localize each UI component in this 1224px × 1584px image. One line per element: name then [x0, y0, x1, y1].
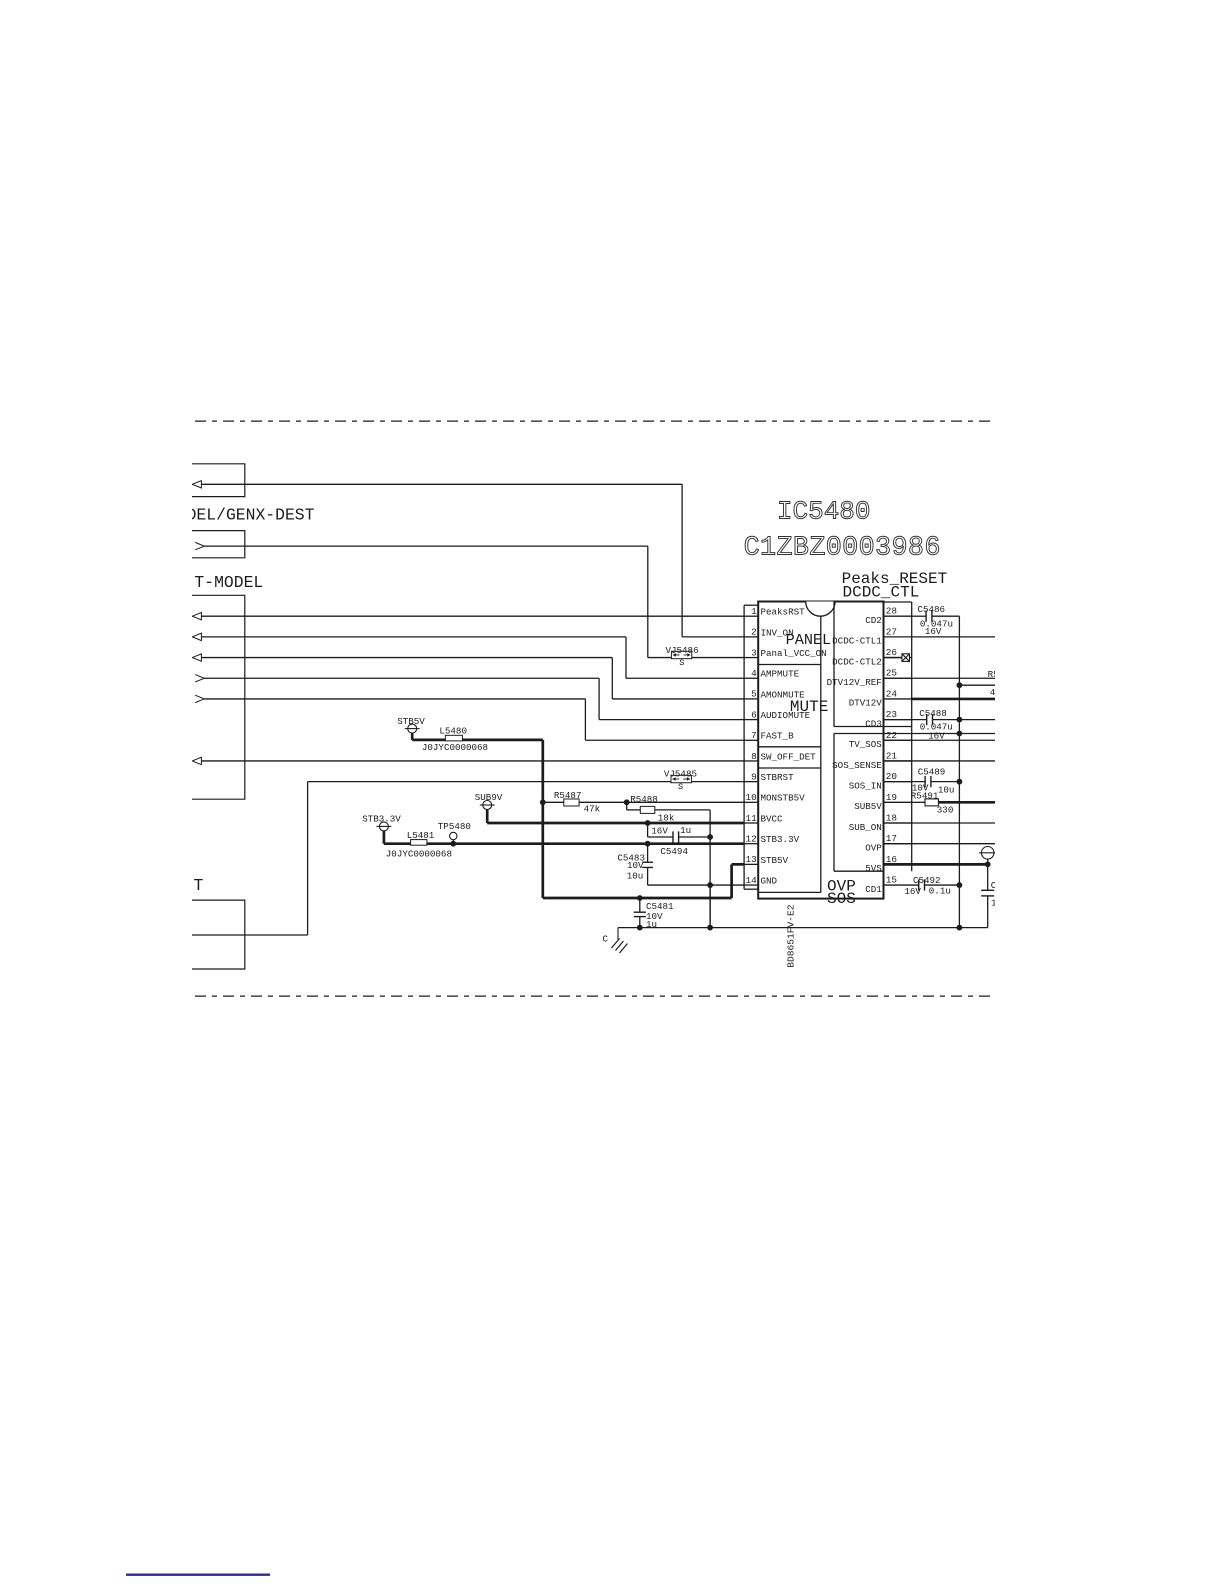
svg-text:SUB5V: SUB5V — [854, 801, 882, 812]
STB5V wire to L5480 — [412, 739, 445, 742]
svg-text:BD8651FV-E2: BD8651FV-E2 — [785, 904, 796, 968]
svg-text:18: 18 — [886, 813, 898, 824]
svg-text:1: 1 — [991, 898, 997, 909]
junction C5481 top — [637, 895, 643, 901]
pin 4 divider — [744, 677, 758, 679]
svg-text:15: 15 — [886, 875, 898, 886]
svg-text:DTV12V_REF: DTV12V_REF — [827, 677, 882, 688]
svg-text:SUB_ON: SUB_ON — [849, 822, 882, 833]
wire to pin 2 INV_ON — [682, 636, 744, 638]
svg-text:OVP: OVP — [865, 842, 882, 853]
wire R5488 east — [655, 809, 710, 811]
svg-text:0.1u: 0.1u — [929, 885, 951, 896]
wire to pin 7 FAST_B — [585, 739, 744, 741]
svg-text:SW_OFF_DET: SW_OFF_DET — [761, 751, 817, 762]
junction rail/riser — [707, 925, 713, 931]
pin 13 divider — [744, 863, 758, 865]
junction GND riser — [707, 882, 713, 888]
capacitor C5492 — [918, 879, 920, 890]
svg-text:1: 1 — [751, 606, 757, 617]
jumper VJ5485 — [671, 775, 691, 782]
svg-text:CD2: CD2 — [865, 615, 882, 626]
wire cap to rail — [987, 896, 989, 928]
wire pin 16 5VS (thick) — [884, 863, 988, 866]
label column — [820, 616, 822, 892]
right pin box column — [911, 602, 913, 871]
svg-text:2: 2 — [751, 627, 757, 638]
svg-text:T-MODEL: T-MODEL — [194, 573, 263, 592]
junction bus/C5489 — [957, 779, 963, 785]
arrow AMONMUTE net — [192, 654, 201, 661]
wire node down to rail — [709, 837, 711, 928]
svg-text:13: 13 — [746, 854, 758, 865]
svg-text:T: T — [194, 876, 204, 895]
SUB9V drop — [486, 810, 489, 824]
junction rail/bus — [957, 925, 963, 931]
block SOS bottom — [834, 870, 884, 872]
wire to pin 1 PeaksRST — [201, 615, 744, 617]
pin 7 divider — [744, 739, 758, 741]
wire C5483 to GND line — [647, 868, 649, 886]
svg-text:19: 19 — [886, 792, 897, 803]
svg-text:J0JYC0000068: J0JYC0000068 — [386, 848, 452, 859]
STB5V riser down — [541, 740, 544, 898]
svg-text:47k: 47k — [584, 804, 601, 815]
svg-text:CD3: CD3 — [865, 718, 882, 729]
wire pin 22 TV_SOS — [884, 739, 996, 741]
capacitor C5494 — [672, 831, 674, 842]
bottom dashed border — [195, 995, 994, 997]
capacitor at cut edge — [981, 889, 994, 891]
svg-text:8: 8 — [751, 751, 757, 762]
svg-text:S: S — [679, 658, 684, 668]
svg-text:DCDC-CTL2: DCDC-CTL2 — [832, 656, 882, 667]
wire to pin 5 AMONMUTE — [612, 698, 744, 700]
power flag STB3.3V — [379, 822, 388, 831]
arrow AMPMUTE net — [192, 633, 201, 640]
svg-text:DCDC_CTL: DCDC_CTL — [843, 584, 920, 602]
svg-text:R5: R5 — [988, 669, 999, 680]
wire pin 17 OVP — [884, 843, 996, 845]
wire P1 to INV_ON (v) — [681, 484, 683, 637]
pin 27 divider — [884, 636, 912, 638]
ground rail — [618, 927, 988, 929]
arrow out P1 — [192, 481, 201, 488]
wire BVCC down to C5494 — [647, 823, 649, 837]
svg-text:SOS_IN: SOS_IN — [849, 780, 882, 791]
svg-text:C: C — [603, 934, 609, 945]
capacitor C5489 — [924, 776, 926, 787]
wire P1 to INV_ON (h) — [201, 483, 682, 485]
block SOS top edge wire — [834, 733, 995, 735]
connector box P3 (tall) — [185, 595, 245, 799]
pin 19 net with R5491 — [912, 801, 925, 803]
svg-text:22: 22 — [886, 730, 897, 741]
test point TP5480 — [450, 832, 457, 839]
pin 19 divider — [884, 801, 912, 803]
wire pin 21 SOS_SENSE — [884, 760, 996, 762]
wire GND pin 14 — [648, 884, 745, 886]
pin 15 net with C5492 — [884, 884, 919, 886]
connector box P2 — [185, 531, 245, 558]
BVCC wire to pin 11 — [487, 822, 744, 825]
svg-text:AMPMUTE: AMPMUTE — [761, 669, 800, 680]
wire to pin 6 AUDIOMUTE — [599, 719, 744, 721]
wire to pin 4 AMPMUTE — [626, 677, 744, 679]
jumper VJ5486 — [671, 651, 691, 658]
wire P2 to Panel_VCC_ON (h) — [204, 545, 648, 547]
arrow in P2 — [195, 542, 204, 549]
wire to AUDIOMUTE (v) — [598, 678, 600, 719]
junction bus tap — [957, 682, 963, 688]
svg-text:C: C — [991, 880, 997, 891]
capacitor C5483 — [642, 861, 653, 863]
pin 12 divider — [744, 843, 758, 845]
pin 23 net with C5488 — [884, 719, 927, 721]
pin 18 divider — [884, 822, 912, 824]
junction BVCC/C5494 — [645, 820, 651, 826]
wire pin 25 DTV12V_REF — [884, 677, 996, 679]
wire C5481 to rail — [639, 917, 641, 928]
wire to FAST_B (v) — [584, 699, 586, 740]
junction bus/SOS top — [957, 731, 963, 737]
svg-text:STB5V: STB5V — [397, 716, 425, 727]
svg-text:16V: 16V — [651, 826, 668, 837]
inductor L5480 — [445, 735, 462, 741]
svg-text:TP5480: TP5480 — [438, 821, 471, 832]
wire pin 18 SUB_ON — [884, 822, 996, 824]
inner block DCDC — [833, 602, 835, 727]
pin 28 net with C5486 — [912, 615, 927, 617]
pin 20 net with C5489 — [884, 781, 926, 783]
TP5480 stub — [452, 840, 454, 844]
svg-text:16V: 16V — [925, 626, 942, 637]
arrow PeaksRST — [192, 613, 201, 620]
wire to jumper VJ5486 — [648, 657, 671, 659]
junction STB5V/R5487 — [540, 799, 546, 805]
svg-text:C5489: C5489 — [918, 767, 946, 778]
svg-text:S: S — [678, 782, 683, 792]
pin 26 no-connect — [884, 657, 902, 659]
pin 20 divider — [884, 781, 912, 783]
pin 14 divider — [744, 884, 758, 886]
wire jumper to pin 3 — [692, 657, 744, 659]
junction C5494/R5488 — [707, 834, 713, 840]
svg-text:16V: 16V — [904, 886, 921, 897]
svg-text:R5491: R5491 — [911, 790, 939, 801]
svg-text:L5481: L5481 — [407, 830, 435, 841]
svg-text:9: 9 — [751, 771, 757, 782]
pin 28 divider — [884, 615, 912, 617]
svg-text:VJ5485: VJ5485 — [664, 769, 697, 780]
wire to AMPMUTE (v) — [625, 637, 627, 678]
5VS flag stub — [987, 859, 989, 864]
svg-text:C5494: C5494 — [660, 846, 688, 857]
svg-text:STBRST: STBRST — [761, 772, 795, 783]
svg-text:4: 4 — [751, 668, 757, 679]
svg-text:14: 14 — [746, 875, 758, 886]
right edge capacitor (cut) — [987, 864, 989, 890]
connector box P1 (top) — [185, 464, 245, 497]
block DCDC bottom — [834, 726, 912, 728]
wire to pin 8 SW_OFF_DET — [201, 760, 744, 762]
svg-text:STB5V: STB5V — [761, 855, 789, 866]
svg-text:5VS: 5VS — [865, 863, 882, 874]
wire to pin 13 STB5V — [732, 863, 745, 866]
svg-text:1u: 1u — [646, 919, 657, 930]
pin 8 divider — [744, 760, 758, 762]
STB5V riser to pin 13 — [730, 864, 733, 898]
STB5V drop — [411, 733, 414, 740]
svg-text:23: 23 — [886, 709, 898, 720]
svg-text:1u: 1u — [680, 825, 691, 836]
svg-text:24: 24 — [886, 688, 898, 699]
wire GND down to rail — [709, 885, 711, 928]
svg-text:SOS: SOS — [827, 890, 856, 908]
resistor R5491 — [925, 799, 938, 806]
svg-text:CD1: CD1 — [865, 884, 882, 895]
capacitor C5486 — [925, 611, 927, 622]
wire jumper to pin 9 STBRST — [692, 781, 745, 783]
wire P4 riser (v) — [307, 782, 309, 935]
power flag 5VS — [981, 847, 994, 860]
wire to FAST_B (h) — [204, 698, 585, 700]
inner block SOS — [833, 734, 835, 872]
top dashed border — [195, 420, 994, 422]
svg-text:GND: GND — [761, 875, 778, 886]
pin 16 divider — [884, 863, 912, 865]
pin 6 divider — [744, 719, 758, 721]
svg-text:BVCC: BVCC — [761, 813, 784, 824]
chassis ground symbol — [617, 928, 619, 940]
capacitor C5481 — [634, 911, 646, 913]
wire P2 to Panel_VCC_ON (v) — [647, 546, 649, 657]
svg-text:7: 7 — [751, 730, 757, 741]
wire to AMONMUTE (v) — [611, 658, 613, 699]
pin 1 divider — [744, 615, 758, 617]
svg-text:PeaksRST: PeaksRST — [761, 607, 806, 618]
svg-text:12: 12 — [746, 833, 757, 844]
STB3.3V drop — [383, 831, 386, 844]
pin 17 divider — [884, 843, 912, 845]
STB3.3V wire to pin 12 — [427, 842, 744, 845]
pin 10 divider — [744, 801, 758, 803]
svg-text:DTV12V: DTV12V — [849, 698, 883, 709]
wire R5491 east (thick) — [938, 801, 995, 804]
wire to AUDIOMUTE (h) — [204, 677, 599, 679]
svg-text:STB3.3V: STB3.3V — [761, 834, 800, 845]
arrow AUDIOMUTE net — [195, 675, 204, 682]
wire to C5494 — [648, 836, 673, 838]
pin 3 divider — [744, 657, 758, 659]
svg-text:26: 26 — [886, 647, 898, 658]
pin 9 divider — [744, 781, 758, 783]
junction bus/C5492 — [957, 882, 963, 888]
svg-text:MONSTB5V: MONSTB5V — [761, 793, 806, 804]
wire P4 out (h) — [192, 934, 308, 936]
left pin box column — [743, 605, 745, 889]
svg-text:10u: 10u — [627, 870, 644, 881]
svg-text:25: 25 — [886, 668, 898, 679]
svg-text:21: 21 — [886, 750, 898, 761]
inductor L5481 — [411, 840, 427, 846]
svg-text:L5480: L5480 — [439, 726, 467, 737]
pin 23 divider — [884, 719, 912, 721]
wire to AMONMUTE (h) — [201, 657, 612, 659]
svg-text:27: 27 — [886, 626, 897, 637]
svg-text:10: 10 — [746, 792, 758, 803]
svg-text:47: 47 — [990, 687, 1001, 698]
svg-text:MUTE: MUTE — [790, 698, 828, 716]
junction 5VS — [985, 861, 991, 867]
svg-text:STB3.3V: STB3.3V — [362, 813, 401, 824]
IC notch — [806, 602, 835, 617]
svg-text:C5488: C5488 — [919, 708, 947, 719]
capacitor C5488 — [926, 714, 928, 725]
svg-text:C5486: C5486 — [918, 604, 946, 615]
svg-text:R5488: R5488 — [630, 794, 658, 805]
STB5V wire east — [462, 739, 542, 742]
pin 2 divider — [744, 636, 758, 638]
svg-text:TV_SOS: TV_SOS — [849, 739, 883, 750]
svg-text:330: 330 — [937, 805, 954, 816]
wire down to C5483 — [647, 844, 649, 863]
no-connect symbol — [902, 654, 910, 662]
svg-text:Panal_VCC_ON: Panal_VCC_ON — [761, 648, 827, 659]
wire to jumper VJ5485 — [308, 781, 671, 783]
pin 5 divider — [744, 698, 758, 700]
STB5V bottom run — [543, 897, 732, 900]
svg-text:PANEL: PANEL — [786, 631, 832, 649]
pin 25 divider — [884, 677, 912, 679]
resistor R5487 — [564, 799, 579, 806]
power flag SUB9V — [483, 801, 492, 810]
STB3.3V wire to L5481 — [384, 842, 411, 845]
junction STB3.3V/C5483 — [645, 841, 651, 847]
pin 26 divider — [884, 657, 912, 659]
wire R5487 to pin 10 MONSTB5V — [579, 801, 744, 803]
wire pin 24 DTV12V (thick) — [912, 698, 995, 701]
wire to C5481 — [639, 898, 641, 912]
junction C5481/rail — [637, 925, 643, 931]
vertical bus — [958, 616, 960, 927]
wire R5488 down to C5494 node — [709, 810, 711, 837]
svg-text:SUB9V: SUB9V — [475, 792, 503, 803]
connector box P4 (bottom) — [185, 900, 245, 969]
junction TP5480 — [450, 841, 456, 847]
resistor R5488 — [640, 806, 655, 813]
svg-text:DCDC-CTL1: DCDC-CTL1 — [832, 636, 882, 647]
svg-text:SOS_SENSE: SOS_SENSE — [832, 760, 882, 771]
junction R5488 tap — [624, 799, 630, 805]
svg-text:17: 17 — [886, 833, 897, 844]
svg-text:6: 6 — [751, 709, 757, 720]
wire to R5487 — [543, 801, 564, 803]
svg-text:28: 28 — [886, 606, 898, 617]
wire pin 27 DCDC-CTL1 — [912, 636, 995, 638]
wire to AMPMUTE (h) — [201, 636, 626, 638]
pin 24 divider — [884, 698, 912, 700]
wire down to R5488 — [626, 802, 628, 810]
wire C5494 east — [679, 836, 710, 838]
arrow FAST_B net — [195, 695, 204, 702]
svg-text:R5487: R5487 — [554, 790, 582, 801]
power flag STB5V — [408, 724, 417, 733]
wire to R5488 — [627, 809, 641, 811]
svg-text:FAST_B: FAST_B — [761, 731, 795, 742]
arrow SW_OFF_DET — [192, 757, 201, 764]
svg-text:10u: 10u — [938, 785, 955, 796]
footer blue line — [126, 1574, 270, 1576]
svg-text:3: 3 — [751, 647, 757, 658]
svg-text:20: 20 — [886, 771, 898, 782]
junction bus/C5488 — [957, 717, 963, 723]
pin 11 divider — [744, 822, 758, 824]
svg-text:DEL/GENX-DEST: DEL/GENX-DEST — [187, 505, 315, 524]
svg-text:VJ5486: VJ5486 — [666, 645, 699, 656]
svg-text:IC5480: IC5480 — [777, 497, 871, 527]
IC IC5480 body — [758, 602, 883, 899]
svg-text:C1ZBZ0003986: C1ZBZ0003986 — [744, 533, 941, 563]
svg-text:11: 11 — [746, 813, 758, 824]
pin 21 divider — [884, 760, 912, 762]
pin 22 divider — [884, 739, 912, 741]
svg-text:J0JYC0000068: J0JYC0000068 — [422, 742, 488, 753]
svg-text:10V: 10V — [627, 860, 644, 871]
svg-text:5: 5 — [751, 689, 757, 700]
